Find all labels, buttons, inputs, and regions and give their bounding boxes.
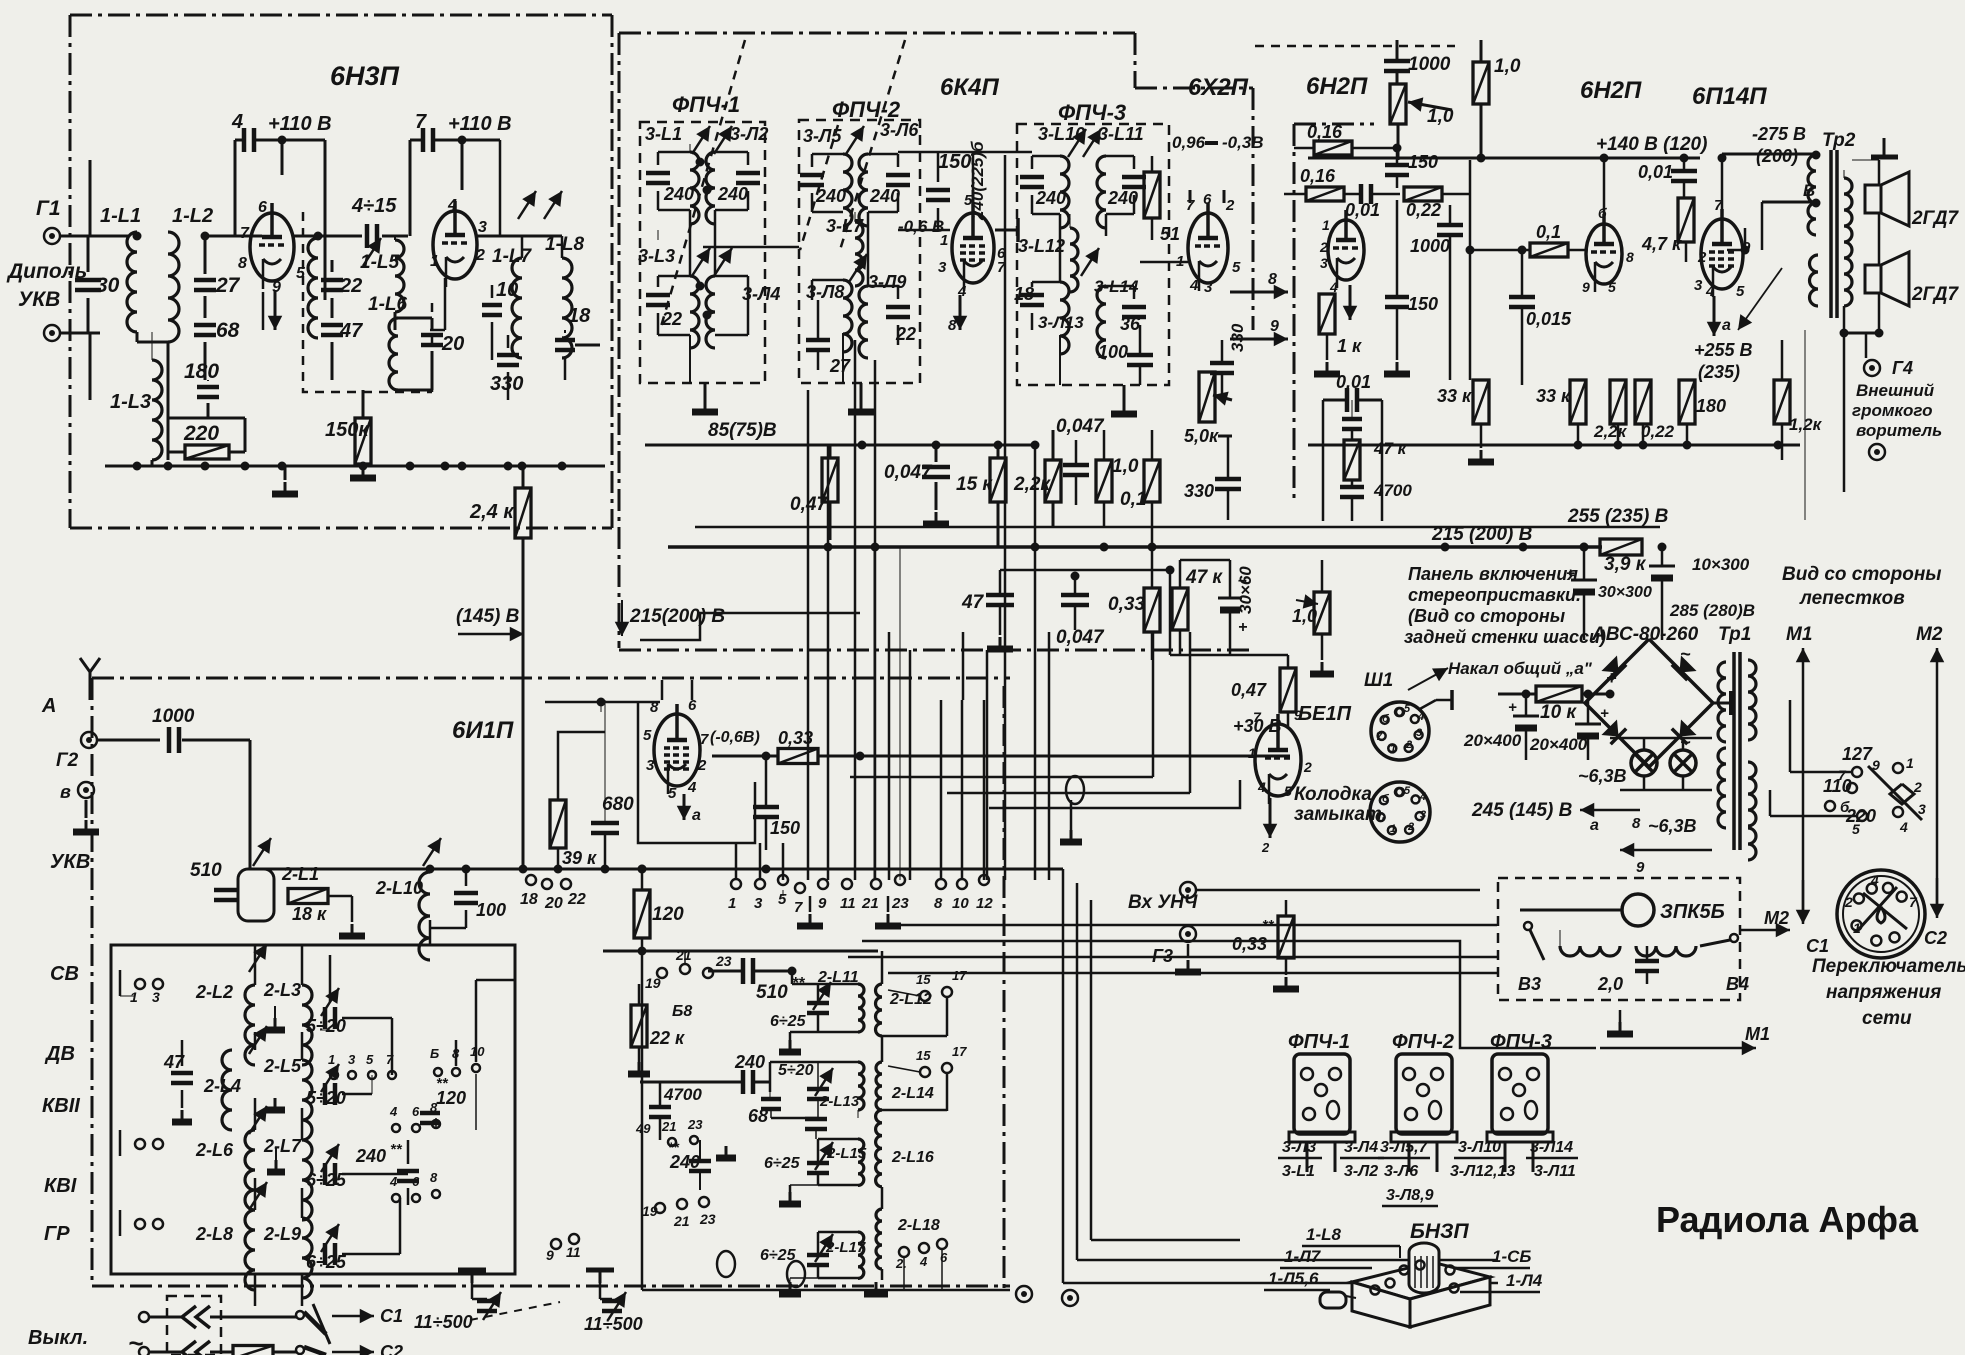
svg-text:10: 10 [952,895,969,912]
svg-text:6Х2П: 6Х2П [1188,74,1249,101]
svg-text:9: 9 [818,895,827,912]
svg-text:21: 21 [861,895,879,912]
cathode arrow U1a [274,290,277,330]
svg-text:БНЗП: БНЗП [1410,1220,1470,1243]
svg-text:17: 17 [952,968,967,983]
svg-text:4700: 4700 [1373,481,1412,500]
svg-text:1: 1 [728,895,736,912]
wire FPCh-3 to 6Kh2P [1140,261,1188,264]
svg-text:85(75)В: 85(75)В [708,420,777,441]
svg-text:М1: М1 [1786,624,1812,645]
svg-text:20×400: 20×400 [1529,735,1588,754]
svg-text:3: 3 [1204,279,1213,296]
svg-text:6: 6 [1203,191,1212,208]
resistor 2.2k [1045,460,1061,502]
svg-text:240: 240 [734,1052,765,1072]
svg-text:1: 1 [1248,745,1256,761]
svg-text:М2: М2 [1916,624,1943,645]
svg-text:150: 150 [938,151,971,173]
svg-text:19: 19 [642,1203,658,1219]
svg-text:21: 21 [673,1213,690,1229]
module FPCh-1 legs [1306,1142,1309,1172]
svg-text:0,33: 0,33 [778,728,813,748]
wire U1a cathode [262,292,265,330]
svg-text:8: 8 [1268,271,1277,288]
long vertical x1035 [1034,445,1037,880]
UKV unit dash-dot enclosure [70,14,612,17]
resistor 18k [288,889,328,904]
capacitor 30 [75,278,101,283]
terminals 2 4 6 [899,1247,909,1257]
svg-text:ФПЧ-2: ФПЧ-2 [832,97,901,122]
terminals 15 17 b [920,1067,930,1077]
svg-text:8: 8 [1626,249,1634,265]
svg-text:4: 4 [1189,277,1199,294]
tank3 bottom ground [817,1174,820,1185]
svg-text:1: 1 [328,1052,335,1067]
svg-text:5: 5 [1736,283,1745,300]
svg-text:А: А [41,695,56,717]
svg-text:сети: сети [1862,1008,1912,1029]
cathode arrow BE1P [1269,798,1272,838]
svg-text:215 (200) В: 215 (200) В [1431,524,1533,545]
wire tank 1-L5 [394,236,396,240]
module FPCh-1 body [1294,1054,1350,1134]
svg-text:2,0: 2,0 [1597,974,1623,994]
ground ZPK5B [1619,1010,1622,1022]
svg-text:5÷20: 5÷20 [306,1088,346,1108]
svg-text:2: 2 [1261,840,1270,855]
trimmer 5-20 a [321,988,339,1016]
svg-text:11÷500: 11÷500 [414,1312,473,1332]
resistor 2.2k b [1610,380,1626,424]
resistor 2.4k dropper [515,488,531,538]
trimmer marks FPCh-1 top [692,126,710,154]
svg-text:4: 4 [1257,779,1266,795]
wire U1b cathode down [444,278,447,330]
svg-text:6: 6 [412,1104,420,1119]
svg-text:2: 2 [1303,759,1312,775]
svg-text:6÷25: 6÷25 [764,1155,801,1172]
svg-text:3: 3 [348,1052,356,1067]
svg-text:**: ** [390,1141,403,1158]
svg-text:2-L1: 2-L1 [281,864,319,884]
svg-text:23: 23 [891,895,909,912]
svg-text:Радиола Арфа: Радиола Арфа [1656,1199,1919,1240]
terminals 1 3 5 [731,879,741,889]
svg-text:9: 9 [1294,707,1302,723]
module FPCh-3 body [1492,1054,1548,1134]
ground kv2 row [274,1098,277,1110]
long vertical x808 [807,390,810,880]
svg-text:0,047: 0,047 [1056,416,1105,437]
svg-text:20×400: 20×400 [1463,731,1522,750]
ground UKV main [284,466,287,480]
resistor 1k cathode [1319,294,1335,334]
svg-text:1-L6: 1-L6 [368,294,408,315]
heptode 6I1P [654,714,700,786]
BN3P side knob [1320,1292,1346,1308]
svg-text:150: 150 [1408,294,1438,314]
extra long verticals mid [888,632,891,880]
svg-text:4: 4 [231,111,243,133]
potentiometer 1.0 volume [1390,84,1406,124]
svg-text:~: ~ [1680,644,1691,664]
svg-text:127: 127 [1842,744,1873,764]
svg-text:5: 5 [366,1052,374,1067]
ZPK5B dashed box [1498,878,1740,1000]
svg-text:11: 11 [840,895,856,912]
svg-text:1-Л7: 1-Л7 [1284,1247,1322,1266]
svg-text:3-L7: 3-L7 [826,216,864,236]
svg-text:1,0: 1,0 [1427,106,1454,127]
svg-text:120: 120 [652,904,684,925]
svg-text:180: 180 [184,360,219,383]
svg-text:3: 3 [646,757,655,774]
resistor 22k [631,1005,647,1047]
svg-text:215(200) В: 215(200) В [629,606,725,627]
svg-text:3-Л5,7: 3-Л5,7 [1380,1139,1429,1156]
capacitor 680 [591,821,619,826]
resistor 3.9k filter [1600,539,1642,555]
resistor 47k mid [1344,440,1360,480]
svg-text:4: 4 [687,779,697,796]
svg-text:0,1: 0,1 [1536,222,1561,242]
trimmer marks FPCh-1 mid [692,248,710,276]
svg-text:3-Л6: 3-Л6 [880,120,919,140]
svg-text:0,22: 0,22 [1641,422,1675,441]
tank1 bottom and ground [818,1031,858,1034]
svg-text:6: 6 [258,199,267,216]
svg-text:9: 9 [546,1247,554,1263]
svg-text:6Н2П: 6Н2П [1580,77,1642,104]
wire pin9 step [1727,228,1745,250]
svg-text:Г3: Г3 [1152,946,1173,966]
svg-text:1: 1 [1906,755,1914,771]
ground 18k [351,924,354,936]
svg-text:Б: Б [430,1046,439,1061]
svg-text:а: а [1722,317,1731,334]
svg-text:3-Л6: 3-Л6 [1384,1163,1418,1180]
oval feedthrough c [787,1261,805,1287]
wire antenna leads [89,160,92,236]
motor ZPK5B [1622,894,1654,926]
module FPCh-3 base bar [1487,1132,1553,1142]
svg-text:1-Л5,6: 1-Л5,6 [1268,1269,1319,1288]
jack circles bottom [1016,1286,1032,1302]
capacitor 510** [741,958,746,984]
cathode arrow 6I1P [683,794,686,820]
trimmer 6-25 a [321,1144,339,1172]
output transformer secondary [1844,178,1852,306]
svg-text:7: 7 [240,225,250,242]
svg-text:ФПЧ-3: ФПЧ-3 [1058,100,1126,125]
module FPCh-2 pins [1403,1068,1415,1080]
wire FPCh-3 internals [1059,214,1062,282]
svg-text:0,96: 0,96 [1172,133,1206,152]
svg-text:6К4П: 6К4П [940,74,999,101]
svg-text:1: 1 [130,989,138,1005]
svg-text:+110 В: +110 В [268,113,332,135]
svg-text:(200): (200) [1756,146,1798,166]
B+ bus 140V [1308,157,1700,160]
svg-text:(-0,6В): (-0,6В) [710,729,760,746]
svg-text:Вх УНЧ: Вх УНЧ [1128,892,1198,913]
svg-text:10: 10 [496,279,518,301]
wires 2L18 to right [941,1250,943,1290]
svg-text:Ш1: Ш1 [1364,670,1393,691]
svg-text:2-L7: 2-L7 [263,1136,302,1156]
resistor 33k a [1473,380,1489,424]
trimmer mark FPCh-3 mid [1081,248,1099,276]
svg-text:ЗПК5Б: ЗПК5Б [1660,901,1725,923]
svg-text:2-L10: 2-L10 [375,878,423,898]
selector rotor diamond [1890,784,1914,804]
svg-text:0,1: 0,1 [1120,489,1146,510]
svg-text:5: 5 [668,785,677,802]
svg-text:5: 5 [643,727,652,744]
svg-text:1,0: 1,0 [1292,606,1317,626]
svg-text:22: 22 [895,324,916,344]
svg-text:150: 150 [1408,152,1438,172]
wire 0.33 row to right [820,755,1290,758]
vertical 1170 to BE1P zone [1169,570,1172,655]
svg-text:2: 2 [1225,197,1235,214]
svg-text:КВI: КВI [44,1175,77,1197]
svg-text:7: 7 [1253,709,1262,725]
ground FPCh-2 [860,383,863,400]
svg-text:2: 2 [1407,821,1414,833]
wire 215 step [640,613,860,640]
svg-text:0,16: 0,16 [1307,122,1343,142]
svg-text:0,01: 0,01 [1345,200,1380,220]
svg-text:68: 68 [748,1106,768,1126]
svg-text:23: 23 [699,1211,716,1227]
svg-text:0,33: 0,33 [1232,934,1267,954]
grounds in band box [274,1006,276,1018]
svg-text:0,01: 0,01 [1336,372,1371,392]
svg-text:7: 7 [1838,767,1847,783]
arrow 145V [458,633,524,636]
IF bottom top wire [603,950,878,953]
svg-text:1: 1 [430,253,439,270]
svg-text:245 (145) В: 245 (145) В [1471,800,1573,821]
svg-text:4,7 к: 4,7 к [1641,234,1682,254]
resistor 180 [1679,380,1695,424]
speaker 2 2GD7 [1865,265,1881,293]
svg-text:2,2к: 2,2к [1013,474,1051,495]
svg-text:7: 7 [1909,894,1918,910]
svg-text:240: 240 [717,184,748,204]
arrow 215V small [621,600,623,636]
FPCh-1 dashed box [640,122,765,383]
svg-text:3-Л12,13: 3-Л12,13 [1450,1163,1515,1180]
coupling wire row2 [640,1081,743,1084]
6I1P block border top [92,677,1010,680]
svg-text:УКВ: УКВ [50,851,90,873]
svg-text:замыкат.: замыкат. [1294,804,1387,825]
terminals row gr [392,1194,400,1202]
svg-text:3-Л4: 3-Л4 [1344,1139,1378,1156]
ground under oval [1070,800,1073,830]
svg-text:ФПЧ-3: ФПЧ-3 [1490,1031,1552,1053]
capacitor 68 [194,323,216,328]
feed line 145V vertical [522,548,525,869]
terminal ext [1869,444,1885,460]
svg-text:а: а [1590,817,1599,834]
svg-text:Г2: Г2 [56,750,79,771]
trimmer 11-500 b [599,1283,602,1299]
wire B tap [1762,201,1814,204]
svg-text:47 к: 47 к [1185,567,1223,588]
misc grounds top [704,387,706,400]
band box exit wires right [475,980,478,1062]
coil 1-L8 [562,258,572,358]
speaker chain wires [1843,170,1845,178]
SV contacts [135,979,145,989]
wire anode 6P14P up [1721,158,1724,218]
svg-text:100: 100 [476,900,506,920]
bottom bus UKV [105,465,605,468]
svg-text:100: 100 [1098,342,1128,362]
long vertical x875 [874,360,877,880]
svg-text:Г4: Г4 [1892,358,1913,378]
svg-text:6И1П: 6И1П [452,717,514,744]
svg-text:180: 180 [1696,396,1726,416]
wire screen feed vertical [1004,155,1007,445]
svg-text:240: 240 [355,1146,386,1166]
svg-text:8: 8 [948,317,957,334]
svg-text:20: 20 [441,333,464,355]
svg-text:~6,3В: ~6,3В [1648,816,1697,836]
6I1P block border left [91,678,94,1286]
electrolytic 20x400 b [1575,723,1601,726]
svg-text:5: 5 [1232,259,1241,276]
svg-text:3-L1: 3-L1 [1282,1163,1315,1180]
svg-text:27: 27 [215,274,241,297]
long vertical x855 [854,340,857,880]
capacitor 4 anode [242,128,247,152]
svg-text:2-L6: 2-L6 [195,1140,234,1160]
terminals 19 21 23 top [657,968,667,978]
trimmer mark row3 [249,1106,267,1134]
terminal G1 upper [44,228,60,244]
svg-text:2,4 к: 2,4 к [469,501,514,523]
anode box 6I1P [638,702,755,843]
svg-text:8: 8 [1632,815,1641,832]
wire to BE1P [1287,655,1290,668]
audio ground bus [1308,444,1800,447]
svg-text:1-L8: 1-L8 [1306,1225,1342,1244]
svg-text:285 (280)В: 285 (280)В [1669,601,1755,620]
svg-text:510: 510 [756,982,788,1003]
svg-text:0,33: 0,33 [1108,594,1145,615]
coil 1-L3 [152,360,162,460]
svg-text:3-Л8,9: 3-Л8,9 [1386,1187,1434,1204]
terminal v [78,782,94,798]
terminals 18 20 22 [526,875,536,885]
BN3P pins [1371,1286,1380,1295]
svg-text:1-L5: 1-L5 [360,252,400,273]
mains input terminals [139,1312,149,1322]
arrow M1 bottom [1600,1047,1756,1050]
svg-text:3-Л5: 3-Л5 [803,126,842,146]
ground contacts left a [275,1148,277,1160]
svg-text:С2: С2 [380,1342,403,1355]
anode feed 6N2P-b [1603,158,1606,224]
bus 85V [645,444,1035,447]
wire anode loop right [410,139,423,142]
svg-text:3: 3 [1694,277,1703,294]
svg-text:2-L13: 2-L13 [819,1093,860,1110]
svg-text:7: 7 [1376,731,1383,743]
BN3P body 3D box [1352,1262,1490,1299]
svg-text:3-Л13: 3-Л13 [1038,313,1084,332]
Tr1 secondary fil [1748,762,1756,826]
wire 1-L1/1-L2 bottoms [136,332,139,342]
vertical M1 wire [1804,330,1806,520]
svg-text:5: 5 [1284,783,1292,799]
svg-text:17: 17 [952,1044,967,1059]
resistor 0.22 b [1635,380,1651,424]
svg-text:3-L3: 3-L3 [638,246,675,266]
svg-text:8: 8 [238,255,247,272]
svg-text:С2: С2 [1924,928,1947,948]
trimmer 11-500 a [471,1283,474,1299]
svg-text:2-L5: 2-L5 [263,1056,302,1076]
svg-text:1000: 1000 [1410,236,1450,256]
capacitor 1000 top [1384,59,1410,64]
svg-text:–: – [1238,572,1247,589]
svg-text:1-L1: 1-L1 [100,205,141,227]
oscillator dashed shield [303,212,432,392]
wire output right [561,236,564,258]
trimmer marks output [518,191,536,219]
resistor 51 [1144,172,1160,218]
svg-text:4: 4 [389,1174,398,1189]
module FPCh-1 pins [1301,1068,1313,1080]
wire FPCh-1 inner [689,210,692,276]
label 5.0k wire [1185,435,1187,437]
svg-text:33 к: 33 к [1437,386,1472,406]
svg-text:Панель включения: Панель включения [1408,564,1578,584]
svg-text:Вид со стороны: Вид со стороны [1782,564,1942,585]
svg-text:В: В [1803,181,1815,200]
speaker 1 2GD7 [1865,185,1881,213]
module FPCh-3 legs [1504,1142,1507,1172]
svg-text:1-L2: 1-L2 [172,205,213,227]
svg-text:4700: 4700 [663,1085,702,1104]
svg-text:2-L16: 2-L16 [891,1149,934,1166]
trimmer mark FPCh-2 [846,126,864,154]
svg-text:2-L3: 2-L3 [263,980,301,1000]
capacitor near 330 [1210,361,1234,366]
svg-text:+140 В (120): +140 В (120) [1596,134,1707,155]
potentiometer 5k [1199,372,1215,422]
trimmer 6-25 L11 [813,982,831,1010]
resistor 0.47 BE1P [1280,668,1296,712]
svg-text:5: 5 [1852,821,1860,837]
svg-text:ФПЧ-1: ФПЧ-1 [672,92,740,117]
bus vertical bundle right of IF [1062,869,1065,1283]
svg-text:510: 510 [190,860,222,881]
antenna A symbol [89,672,92,700]
svg-text:(Вид со стороны: (Вид со стороны [1408,606,1566,626]
wire 6K4P anode feed [972,152,975,203]
svg-text:6÷25: 6÷25 [306,1170,347,1190]
svg-text:240: 240 [663,184,694,204]
resistor 0.33 conv [778,749,818,764]
